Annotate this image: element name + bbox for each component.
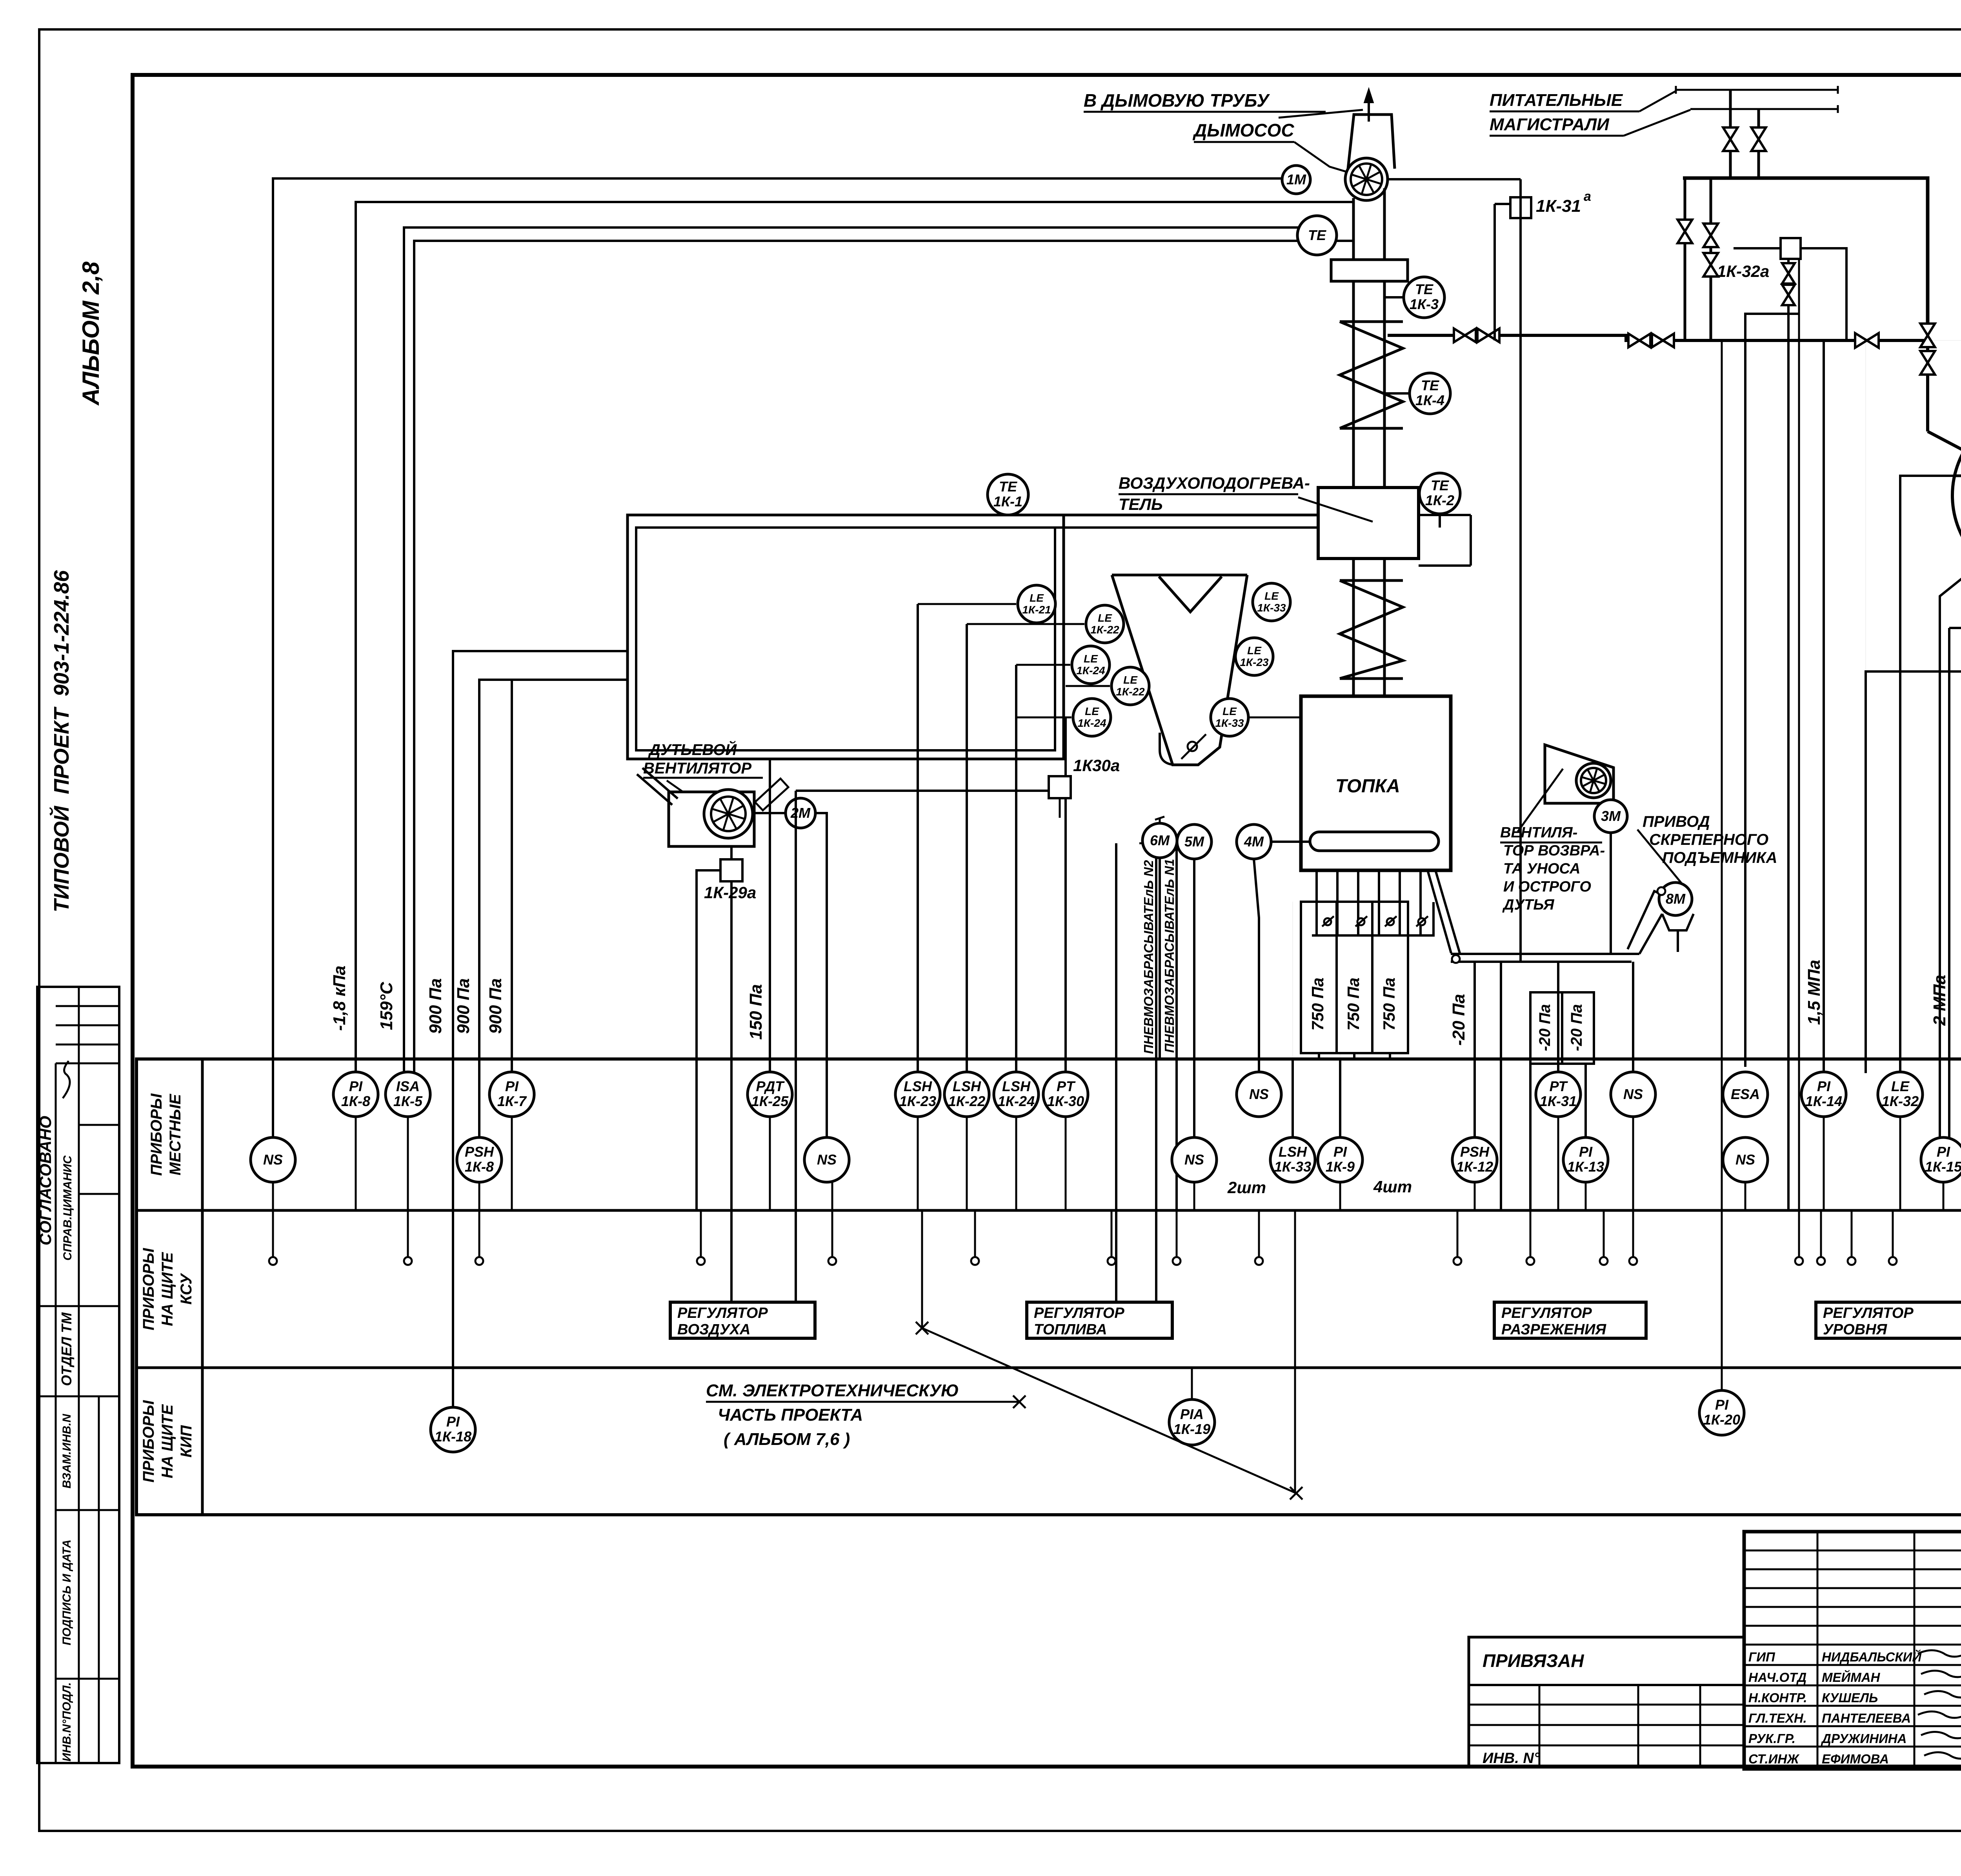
instrument PI 1K-13	[1563, 1137, 1608, 1182]
svg-text:1К-30: 1К-30	[1047, 1093, 1084, 1109]
instrument band table	[136, 1059, 1961, 1515]
svg-text:КСУ: КСУ	[178, 1273, 195, 1305]
svg-text:NS: NS	[263, 1152, 283, 1168]
svg-text:LE: LE	[1085, 705, 1099, 717]
motor circle 1M	[1282, 166, 1310, 194]
svg-text:ДУТЬЕВОЙ: ДУТЬЕВОЙ	[648, 740, 737, 759]
wire from 1K-32a second tap	[1798, 260, 1800, 1211]
slag chute slants	[1428, 870, 1460, 953]
svg-text:PI: PI	[1333, 1144, 1347, 1160]
LE horizontal links	[918, 603, 1016, 605]
wire 1.5MPa	[1865, 340, 1866, 1073]
terminal stub KSU x=4643	[1817, 1211, 1825, 1265]
svg-text:1К-19: 1К-19	[1173, 1421, 1210, 1437]
boiler drum big circle	[1952, 406, 1961, 585]
instrument PIA 1K-19	[1169, 1399, 1215, 1445]
wire 1K-29a down to regulator	[730, 881, 733, 1302]
svg-text:8М: 8М	[1666, 891, 1686, 907]
svg-text:РТ: РТ	[1550, 1078, 1568, 1094]
feed header pipe	[1683, 178, 1928, 323]
svg-text:NS: NS	[1623, 1086, 1643, 1102]
svg-text:900 Па: 900 Па	[426, 978, 445, 1034]
regulator box RAZREZHENIYA	[1494, 1302, 1646, 1338]
blower inlet duct	[637, 768, 678, 805]
svg-text:ВОЗДУХА: ВОЗДУХА	[677, 1321, 750, 1338]
wire to LSH 1K-33 bottom row	[1292, 1059, 1294, 1139]
svg-text:ТЕ: ТЕ	[1421, 377, 1439, 393]
svg-text:1К-32: 1К-32	[1882, 1093, 1919, 1109]
duct flange	[1331, 260, 1408, 281]
svg-text:И ОСТРОГО: И ОСТРОГО	[1503, 879, 1591, 895]
svg-text:NS: NS	[1184, 1152, 1204, 1168]
svg-text:3М: 3М	[1601, 808, 1621, 824]
svg-text:1К-33: 1К-33	[1274, 1159, 1311, 1175]
regulator box VOZDUKHA	[670, 1302, 815, 1338]
terminal stub KSU x=2122	[828, 1211, 836, 1265]
terminal stub KSU x=4826	[1889, 1211, 1897, 1265]
motor circle 4M	[1237, 824, 1271, 859]
svg-text:PIА: PIА	[1180, 1406, 1204, 1422]
svg-text:ТА УНОСА: ТА УНОСА	[1503, 861, 1580, 877]
instrument NS hand switch 2	[804, 1137, 849, 1182]
svg-text:1К-31: 1К-31	[1540, 1093, 1577, 1109]
instrument NS hand switch 4	[1237, 1072, 1281, 1117]
svg-text:ТЕ: ТЕ	[999, 479, 1017, 495]
LE bus wires down to band	[917, 604, 919, 1076]
svg-text:ПРИБОРЫ: ПРИБОРЫ	[140, 1400, 157, 1483]
coal hopper funnel	[1112, 575, 1247, 765]
lower feed pipe with valves	[1388, 335, 1928, 340]
svg-text:PSH: PSH	[1460, 1144, 1490, 1160]
valve mid 2	[1477, 329, 1499, 342]
svg-text:В ДЫМОВУЮ ТРУБУ: В ДЫМОВУЮ ТРУБУ	[1084, 90, 1270, 111]
svg-text:6М: 6М	[1150, 832, 1170, 848]
svg-text:4М: 4М	[1244, 833, 1264, 850]
svg-text:NS: NS	[1249, 1086, 1269, 1102]
wire from 2M down to NS	[815, 813, 827, 1137]
svg-text:ESA: ESA	[1731, 1086, 1760, 1102]
svg-text:NS: NS	[817, 1152, 837, 1168]
svg-text:НА ЩИТЕ: НА ЩИТЕ	[159, 1404, 176, 1479]
svg-text:АЛЬБОМ 2,8: АЛЬБОМ 2,8	[78, 261, 104, 406]
wire loop L3 to TE sensor	[404, 227, 1298, 1077]
svg-text:1К-29а: 1К-29а	[704, 883, 756, 902]
sensor circle LE 1K-33 top	[1253, 583, 1290, 621]
wire from 3M down	[1610, 833, 1612, 954]
svg-text:ГИП: ГИП	[1748, 1650, 1775, 1664]
instrument PI 1K-15	[1921, 1137, 1961, 1182]
svg-text:PI: PI	[1579, 1144, 1593, 1160]
svg-text:1К-33: 1К-33	[1257, 602, 1286, 614]
svg-text:1К-23: 1К-23	[899, 1093, 936, 1109]
svg-text:ТОПЛИВА: ТОПЛИВА	[1034, 1321, 1107, 1338]
instrument PI 1K-14	[1801, 1072, 1846, 1117]
motor circle 2M	[786, 798, 815, 828]
svg-text:1К-22: 1К-22	[948, 1093, 985, 1109]
instrument NS hand switch 1	[251, 1137, 295, 1182]
svg-text:-20 Па: -20 Па	[1449, 994, 1468, 1046]
instrument PI 1K-9	[1318, 1137, 1363, 1182]
blower air duct enclosure outer	[628, 515, 1064, 759]
sensor circle LE 1&#1050;-21	[1018, 585, 1055, 623]
svg-text:НИДБАЛЬСКИЙ: НИДБАЛЬСКИЙ	[1822, 1649, 1922, 1664]
motor circle 3M	[1594, 800, 1627, 833]
terminal stub KSU x=696	[269, 1211, 277, 1265]
furnace box TOPKA	[1301, 696, 1451, 870]
terminal stub KSU x=4089	[1600, 1211, 1608, 1265]
svg-text:ПРИВЯЗАН: ПРИВЯЗАН	[1483, 1650, 1584, 1671]
svg-text:МЕСТНЫЕ: МЕСТНЫЕ	[167, 1094, 184, 1175]
svg-text:ВЗАМ.ИНВ.N: ВЗАМ.ИНВ.N	[60, 1414, 73, 1488]
svg-text:LE: LE	[1891, 1078, 1910, 1094]
wires from 750Pa boxes to band	[1318, 1053, 1320, 1059]
svg-text:ПИТАТЕЛЬНЫЕ: ПИТАТЕЛЬНЫЕ	[1490, 91, 1623, 110]
svg-text:ЧАСТЬ ПРОЕКТА: ЧАСТЬ ПРОЕКТА	[718, 1405, 863, 1425]
instrument RDT 1K-25	[748, 1072, 792, 1117]
scraper hoist	[1628, 891, 1660, 949]
vertical crossing wire	[1294, 1211, 1296, 1493]
branch pipe A	[1684, 178, 1686, 340]
terminal stub KSU x=4721	[1848, 1211, 1855, 1265]
svg-text:1К30а: 1К30а	[1073, 756, 1120, 775]
svg-text:ОТДЕЛ ТМ: ОТДЕЛ ТМ	[58, 1312, 75, 1386]
svg-text:ДУТЬЯ: ДУТЬЯ	[1502, 897, 1555, 913]
svg-text:2М: 2М	[790, 805, 811, 821]
superheater zigzag 1	[1340, 322, 1403, 428]
row label PRIBORY NA SHCHITE KIP	[140, 1400, 195, 1483]
svg-text:1К-3: 1К-3	[1410, 296, 1439, 312]
wire to PI 1K-20 from piping	[1721, 340, 1723, 1390]
feeder pump symbol	[1160, 733, 1198, 765]
air duct to heater line B	[1055, 526, 1318, 529]
privyazan table	[1469, 1637, 1744, 1767]
sensor circle TE	[1297, 216, 1337, 255]
svg-text:PI: PI	[349, 1078, 363, 1094]
svg-text:PI: PI	[1937, 1144, 1950, 1160]
svg-text:ИНВ.N°ПОДЛ.: ИНВ.N°ПОДЛ.	[60, 1682, 73, 1761]
svg-text:1К-25: 1К-25	[751, 1093, 789, 1109]
valve on feed pipe 1	[1723, 127, 1737, 151]
grate bars	[1315, 870, 1318, 935]
svg-text:НАЧ.ОТД: НАЧ.ОТД	[1748, 1670, 1806, 1685]
drum left taps	[1900, 476, 1955, 1076]
riser to drum with valves	[1926, 323, 1929, 431]
svg-text:ТОПКА: ТОПКА	[1335, 776, 1400, 797]
terminal stub KSU x=1040	[404, 1211, 412, 1265]
svg-text:150 Па: 150 Па	[746, 984, 766, 1040]
svg-text:РЕГУЛЯТОР: РЕГУЛЯТОР	[1034, 1305, 1124, 1321]
feed pipe 1 with valves	[1729, 90, 1732, 178]
svg-text:ТЕЛЬ: ТЕЛЬ	[1119, 495, 1163, 513]
svg-text:PT: PT	[1057, 1078, 1076, 1094]
svg-text:750 Па: 750 Па	[1308, 977, 1327, 1030]
svg-text:СПРАВ.ЦИМАНИС: СПРАВ.ЦИМАНИС	[61, 1155, 74, 1261]
svg-text:PI: PI	[1817, 1078, 1831, 1094]
svg-text:LE: LE	[1222, 705, 1237, 717]
motor circle 8M	[1659, 883, 1692, 915]
svg-text:LE: LE	[1084, 653, 1098, 665]
svg-text:ТИПОВОЙ ПРОЕКТ 903-1-224.86: ТИПОВОЙ ПРОЕКТ 903-1-224.86	[49, 570, 73, 912]
sensor circle TE 1K-1	[988, 474, 1028, 515]
sensor circle LE 1&#1050;-22	[1086, 605, 1124, 643]
regulator box UROVNYA	[1816, 1302, 1961, 1338]
svg-text:1К-9: 1К-9	[1326, 1159, 1355, 1175]
return blow fan housing	[1545, 745, 1614, 803]
wire loop M3 to PI 1K-7	[511, 680, 513, 1077]
wire right from 1K-32a	[1801, 248, 1846, 340]
sensor circle LE 1K-33 lower	[1211, 699, 1248, 736]
superheater zigzag 2	[1340, 580, 1403, 679]
svg-text:СКРЕПЕРНОГО: СКРЕПЕРНОГО	[1649, 831, 1768, 848]
instrument LE 1K-32	[1878, 1072, 1923, 1117]
svg-text:PI: PI	[446, 1414, 460, 1430]
instrument LSH 1K-23	[895, 1072, 940, 1117]
wire and instrument PIA 1K-19	[1191, 1369, 1193, 1399]
terminal stub KSU x=3902	[1526, 1211, 1534, 1265]
svg-text:ТЕ: ТЕ	[1415, 281, 1433, 297]
instrument ISA 1K-5	[386, 1072, 430, 1117]
wire from right LE down	[1270, 583, 1273, 602]
svg-text:PSH: PSH	[465, 1144, 494, 1160]
instrument PI 1K-20	[1699, 1390, 1744, 1435]
row label PRIBORY NA SHCHITE KSU	[140, 1248, 195, 1330]
svg-text:ПНЕВМОЗАБРАСЫВАТЕлЬ N2: ПНЕВМОЗАБРАСЫВАТЕлЬ N2	[1141, 860, 1156, 1054]
svg-text:1К-22: 1К-22	[1090, 624, 1119, 636]
diagonal link wire	[922, 1328, 1296, 1493]
svg-text:2 МПа: 2 МПа	[1930, 975, 1949, 1026]
left stamp table	[37, 987, 119, 1763]
svg-text:1К-2: 1К-2	[1425, 492, 1454, 508]
svg-text:ПАНТЕЛЕЕВА: ПАНТЕЛЕЕВА	[1822, 1711, 1911, 1725]
svg-text:PI: PI	[505, 1078, 519, 1094]
wire bundle from furnace right	[1451, 954, 1639, 962]
feed mains lines	[1676, 89, 1838, 91]
svg-text:159°С: 159°С	[377, 981, 396, 1030]
motor circle 5M	[1177, 824, 1212, 859]
wire loop M1 to PI 1K-18	[453, 651, 628, 1408]
blower fan wheel	[704, 790, 753, 838]
box 1K30a	[1049, 776, 1071, 798]
wire loop L2 to chimney duct	[356, 202, 1353, 1077]
duct below heater	[1352, 559, 1355, 696]
instrument PSH 1K-8	[457, 1137, 502, 1182]
svg-text:ПРИБОРЫ: ПРИБОРЫ	[140, 1248, 157, 1330]
instrument LSH 1K-24	[994, 1072, 1039, 1117]
svg-text:МЕЙМАН: МЕЙМАН	[1822, 1670, 1881, 1685]
svg-text:ВОЗДУХОПОДОГРЕВА-: ВОЗДУХОПОДОГРЕВА-	[1119, 474, 1310, 492]
arrow to chimney stack	[1368, 96, 1370, 122]
wire to RDT 1K-25	[769, 759, 771, 1076]
svg-text:2шт: 2шт	[1227, 1178, 1266, 1197]
wire to PI 1K-14	[1823, 340, 1825, 1075]
svg-text:1К-23: 1К-23	[1240, 656, 1269, 668]
svg-text:ТЕ: ТЕ	[1431, 477, 1449, 493]
sensor TE 1K-4	[1384, 392, 1410, 395]
small drum tap	[1866, 649, 1961, 1073]
valve B2	[1703, 253, 1718, 277]
svg-text:ТОР ВОЗВРА-: ТОР ВОЗВРА-	[1503, 842, 1605, 859]
svg-text:ПОДЪЕМНИКА: ПОДЪЕМНИКА	[1662, 849, 1777, 866]
sensor TE 1K-3	[1384, 296, 1404, 298]
svg-text:1К-12: 1К-12	[1456, 1159, 1493, 1175]
svg-text:1К-13: 1К-13	[1567, 1159, 1604, 1175]
valve L3	[1855, 333, 1879, 348]
sensor circle TE 1K-3	[1404, 277, 1444, 318]
pnevmo feeder wires	[1155, 843, 1157, 1302]
svg-text:РЕГУЛЯТОР: РЕГУЛЯТОР	[677, 1305, 768, 1321]
svg-text:1К-8: 1К-8	[465, 1159, 494, 1175]
750 Pa label boxes	[1301, 902, 1408, 1053]
svg-text:РДТ: РДТ	[756, 1078, 785, 1094]
svg-text:ДРУЖИНИНА: ДРУЖИНИНА	[1821, 1731, 1907, 1746]
instrument LSH 1K-22	[944, 1072, 989, 1117]
regulator box TOPLIVA	[1027, 1302, 1172, 1338]
svg-text:ПОДПИСЬ И ДАТА: ПОДПИСЬ И ДАТА	[60, 1539, 73, 1645]
valve L1	[1628, 334, 1650, 348]
svg-text:900 Па: 900 Па	[486, 978, 505, 1034]
sensor circle LE 1K-23 right	[1235, 638, 1273, 675]
instrument NS hand switch 5	[1611, 1072, 1655, 1117]
steam pipe y868 continues right	[1928, 340, 1961, 341]
svg-text:СТ.ИНЖ: СТ.ИНЖ	[1748, 1752, 1800, 1766]
svg-text:1К-14: 1К-14	[1805, 1093, 1842, 1109]
wire loop L1 to motor 1M	[273, 178, 1282, 1156]
wire loop M2 to PSH 1K-8	[479, 680, 628, 1137]
wire from 1K-32a to ESA	[1745, 314, 1799, 1067]
svg-text:1К-5: 1К-5	[393, 1093, 423, 1109]
instrument LSH 1K-33	[1270, 1137, 1315, 1182]
leader	[1518, 769, 1563, 832]
svg-text:1М: 1М	[1286, 171, 1306, 187]
riser valve 1	[1920, 324, 1935, 347]
blower outlet vane	[755, 779, 788, 810]
wire to PI 1K-9	[1339, 1059, 1341, 1139]
svg-text:1К-21: 1К-21	[1022, 604, 1051, 616]
terminal stub KSU x=1787	[697, 1211, 705, 1265]
regulating valves under 1K-32a	[1787, 259, 1790, 1211]
wires 5M 6M 4M down	[1193, 859, 1195, 1137]
smoke exhauster fan (dymosos)	[1345, 158, 1388, 200]
svg-text:1,5 МПа: 1,5 МПа	[1805, 960, 1824, 1025]
instrument ESA	[1723, 1072, 1768, 1117]
flue duct left line	[1352, 198, 1355, 488]
svg-text:1К-24: 1К-24	[998, 1093, 1035, 1109]
air heater box	[1318, 488, 1419, 559]
svg-text:ИНВ. N°: ИНВ. N°	[1483, 1750, 1540, 1767]
water level line	[1955, 475, 1961, 477]
svg-text:1К-22: 1К-22	[1116, 686, 1145, 698]
junction x-mark 3	[916, 1322, 928, 1334]
svg-text:-1,8 кПа: -1,8 кПа	[330, 966, 349, 1031]
hopper V notch	[1159, 577, 1222, 612]
svg-text:LSH: LSH	[1002, 1078, 1031, 1094]
svg-text:LE: LE	[1123, 674, 1138, 686]
svg-text:1К-24: 1К-24	[1076, 664, 1105, 677]
svg-text:ISA: ISA	[396, 1078, 420, 1094]
svg-text:МАГИСТРАЛИ: МАГИСТРАЛИ	[1490, 115, 1610, 134]
valve B1	[1703, 224, 1718, 247]
svg-text:-20 Па: -20 Па	[1568, 1004, 1585, 1051]
junction x-mark 1	[1013, 1396, 1026, 1408]
chimney transition	[1348, 115, 1395, 169]
sensor circle LE 1&#1050;-24	[1073, 699, 1111, 736]
svg-text:750 Па: 750 Па	[1380, 977, 1398, 1030]
svg-text:750 Па: 750 Па	[1344, 977, 1363, 1030]
duct lines right of heater	[1419, 514, 1471, 516]
svg-text:LE: LE	[1264, 590, 1279, 602]
svg-text:900 Па: 900 Па	[454, 978, 473, 1034]
svg-text:РЕГУЛЯТОР: РЕГУЛЯТОР	[1501, 1305, 1592, 1321]
row label PRIBORY MESTNYE	[148, 1093, 184, 1176]
instrument NS hand switch 6	[1723, 1137, 1768, 1182]
svg-text:1К-8: 1К-8	[341, 1093, 370, 1109]
svg-text:УРОВНЯ: УРОВНЯ	[1823, 1321, 1888, 1338]
svg-text:1К-4: 1К-4	[1415, 392, 1444, 408]
svg-text:КУШЕЛЬ: КУШЕЛЬ	[1822, 1690, 1878, 1705]
valve on feed pipe 2	[1751, 127, 1766, 151]
feed pipe 2 with valves	[1757, 109, 1760, 178]
riser valve 2	[1920, 351, 1935, 375]
svg-text:НА ЩИТЕ: НА ЩИТЕ	[159, 1252, 176, 1326]
valve on branch A	[1677, 220, 1692, 243]
svg-text:1К-32а: 1К-32а	[1717, 262, 1769, 280]
svg-text:а: а	[1584, 189, 1591, 204]
svg-text:1К-33: 1К-33	[1215, 717, 1244, 729]
svg-text:1К-24: 1К-24	[1077, 717, 1106, 729]
wire to air regulator	[795, 791, 797, 1302]
vertical wire bus x2712	[1062, 528, 1065, 759]
sensor circle LE 1&#1050;-24	[1072, 646, 1110, 684]
vertical from LSH 1K-23 stub to diagonal	[921, 1211, 923, 1328]
instrument PSH 1K-12	[1452, 1137, 1497, 1182]
leader to blower	[667, 781, 706, 808]
svg-text:NS: NS	[1735, 1152, 1755, 1168]
valve mid 1	[1454, 329, 1476, 342]
svg-text:ГЛ.ТЕХН.: ГЛ.ТЕХН.	[1748, 1711, 1807, 1725]
svg-text:СОГЛАСОВАНО: СОГЛАСОВАНО	[36, 1116, 55, 1245]
svg-text:5М: 5М	[1184, 833, 1204, 850]
svg-text:LE: LE	[1247, 644, 1262, 657]
terminal stub KSU x=3716	[1453, 1211, 1461, 1265]
svg-text:ЕФИМОВА: ЕФИМОВА	[1822, 1752, 1889, 1766]
actuator box 1K-31a	[1510, 197, 1531, 218]
sensor circle TE 1K-4	[1410, 373, 1450, 414]
instrument PI 1K-8	[333, 1072, 378, 1117]
motor circle 6M	[1142, 823, 1177, 858]
svg-text:РЕГУЛЯТОР: РЕГУЛЯТОР	[1823, 1305, 1914, 1321]
svg-text:LE: LE	[1098, 612, 1112, 624]
svg-text:ВЕНТИЛЯ-: ВЕНТИЛЯ-	[1500, 824, 1577, 841]
title block	[1744, 1532, 1961, 1769]
flue duct right line	[1383, 188, 1386, 488]
svg-text:ПНЕВМОЗАБРАСЫВАТЕлЬ N1: ПНЕВМОЗАБРАСЫВАТЕлЬ N1	[1162, 859, 1177, 1053]
svg-text:LSH: LSH	[904, 1078, 932, 1094]
terminal stub KSU x=1222	[475, 1211, 483, 1265]
sensor circle TE 1K-2	[1419, 473, 1460, 514]
svg-text:-20 Па: -20 Па	[1536, 1004, 1554, 1051]
svg-text:КИП: КИП	[178, 1425, 195, 1457]
wire 2MPa	[1948, 628, 1950, 1139]
terminal stub KSU x=3210	[1255, 1211, 1263, 1265]
svg-text:1К-15: 1К-15	[1925, 1159, 1961, 1175]
damper actuator box 1K-29a	[730, 847, 733, 859]
svg-text:СМ. ЭЛЕКТРОТЕХНИЧЕСКУЮ: СМ. ЭЛЕКТРОТЕХНИЧЕСКУЮ	[706, 1381, 959, 1400]
svg-text:ТЕ: ТЕ	[1308, 227, 1326, 243]
svg-text:1К-1: 1К-1	[993, 493, 1022, 509]
svg-text:ВЕНТИЛЯТОР: ВЕНТИЛЯТОР	[643, 760, 751, 777]
instrument PT 1K-31	[1536, 1072, 1581, 1117]
instrument PI 1K-18	[431, 1407, 475, 1452]
